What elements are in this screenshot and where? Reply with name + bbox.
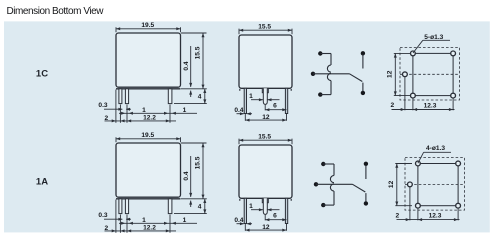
svg-text:Dimension Bottom View: Dimension Bottom View: [7, 6, 105, 17]
svg-text:15.5: 15.5: [258, 23, 271, 30]
svg-text:19.5: 19.5: [141, 22, 154, 29]
svg-text:1A: 1A: [36, 176, 48, 187]
svg-text:12.2: 12.2: [143, 115, 156, 122]
svg-text:1C: 1C: [36, 68, 48, 79]
svg-text:4-ø1.3: 4-ø1.3: [426, 145, 445, 152]
svg-text:12: 12: [387, 70, 394, 78]
svg-text:6: 6: [273, 103, 277, 110]
svg-text:15.5: 15.5: [195, 46, 202, 59]
svg-text:2: 2: [390, 102, 394, 109]
svg-text:0.3: 0.3: [98, 102, 107, 109]
svg-text:1: 1: [249, 93, 253, 100]
svg-text:2: 2: [104, 115, 108, 122]
svg-text:12: 12: [262, 114, 270, 121]
svg-text:0.4: 0.4: [183, 61, 190, 70]
svg-text:1: 1: [183, 107, 187, 114]
svg-text:5-ø1.3: 5-ø1.3: [424, 34, 443, 41]
svg-text:1: 1: [142, 107, 146, 114]
svg-text:12.3: 12.3: [424, 103, 437, 110]
svg-text:4: 4: [198, 94, 202, 101]
